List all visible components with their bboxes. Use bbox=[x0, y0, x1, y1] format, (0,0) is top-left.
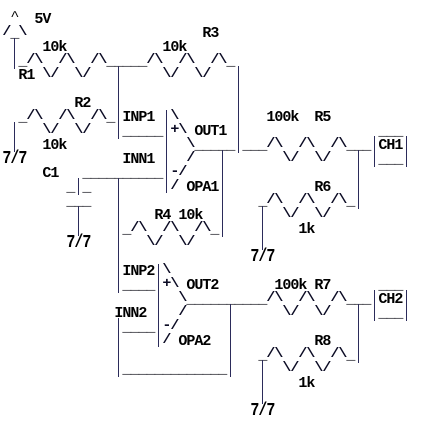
connector CH2 underline bbox=[378, 307, 402, 321]
wire node A down to INP1 bbox=[118, 66, 119, 139]
wire R7 right lead to CH2 bbox=[346, 293, 370, 307]
resistor R6 zigzag bottom bbox=[282, 208, 330, 221]
resistor R4 left lead bbox=[122, 223, 130, 237]
wire INP2 to op-amp + input bbox=[122, 279, 154, 293]
wire OUT1 down to R4 bbox=[222, 150, 223, 237]
power supply 5V arrow base bbox=[10, 27, 18, 41]
resistor R5 labels 100k R5 bbox=[266, 111, 330, 125]
op-amp U1 body row2 bbox=[170, 124, 186, 137]
op-amp U2 body row4 bbox=[178, 306, 186, 319]
op-amp U1 body row6 bbox=[170, 180, 178, 193]
op-amp U1 body row5 bbox=[170, 166, 186, 179]
connector CH1 overline bbox=[378, 125, 402, 139]
wire INN2 to op-amp - input bbox=[122, 321, 154, 335]
label OPA2 bbox=[178, 335, 210, 349]
wire CH1 node down to R6 bbox=[358, 150, 359, 209]
resistor R5 zigzag top bbox=[266, 138, 346, 151]
capacitor C1 top lead bbox=[78, 178, 79, 195]
resistor R2 zigzag top bbox=[26, 110, 106, 123]
ground (R2) bbox=[2, 151, 26, 168]
label INP2 bbox=[122, 265, 154, 279]
resistor R3 right lead bbox=[226, 55, 234, 69]
power supply 5V arrow bbox=[10, 11, 18, 23]
capacitor C1 top plate bbox=[66, 181, 90, 195]
resistor R8 left lead bbox=[258, 349, 266, 363]
resistor R4 right lead bbox=[210, 223, 218, 237]
wire OUT2 run bbox=[186, 293, 266, 307]
resistor R8 right lead bbox=[346, 349, 354, 363]
resistor R8 value 1k bbox=[298, 377, 314, 391]
resistor R4 zigzag bottom bbox=[146, 236, 194, 249]
resistor R1 zigzag top bbox=[26, 54, 106, 67]
ground (R8) bbox=[250, 403, 274, 420]
resistor R1 zigzag bottom bbox=[42, 68, 90, 81]
wire OUT1 right segment bbox=[242, 139, 266, 153]
wire R3 down to OUT1 bbox=[238, 66, 239, 153]
ground (R6) bbox=[250, 249, 274, 266]
op-amp U1 OPA1 body bbox=[170, 110, 178, 123]
connector CH1 underline bbox=[378, 153, 402, 167]
connector CH2 label bbox=[378, 293, 402, 307]
label R3 bbox=[202, 27, 218, 41]
resistor R6 left lead bbox=[258, 195, 266, 209]
wire R2 to ground bbox=[14, 122, 15, 152]
wire feedback bottom (OUT2 to INN2) bbox=[122, 363, 226, 377]
resistor R3 zigzag bottom bbox=[162, 68, 210, 81]
resistor R3 zigzag top bbox=[146, 54, 226, 67]
op-amp U2 OPA2 body bbox=[162, 264, 170, 277]
resistor R8 zigzag bottom bbox=[282, 362, 330, 375]
wire R5 right lead to CH1 bbox=[346, 139, 370, 153]
resistor R2 right lead bbox=[106, 111, 114, 125]
label R6 bbox=[314, 181, 330, 195]
power 5V lead wire bbox=[14, 38, 15, 69]
wire OUT1 run bbox=[194, 139, 234, 153]
resistor R1 left lead bbox=[18, 55, 26, 69]
wire OUT2 down to feedback bbox=[230, 304, 231, 377]
resistor R1 value 10k bbox=[42, 41, 66, 55]
ground (C1) bbox=[66, 235, 90, 252]
resistor R7 labels 100k R7 bbox=[274, 279, 330, 293]
resistor R8 zigzag top bbox=[266, 348, 346, 361]
resistor R2 zigzag bottom bbox=[42, 124, 90, 137]
resistor R4 labels R4 10k bbox=[154, 209, 202, 223]
wire R8 to ground bbox=[262, 360, 263, 404]
wire INN1 (C1 to op-amp - input) bbox=[82, 167, 162, 181]
connector CH2 overline bbox=[378, 279, 402, 293]
connector CH2 right bar bbox=[406, 290, 407, 321]
label R1 bbox=[18, 69, 34, 83]
connector CH2 left bar bbox=[374, 290, 375, 321]
op-amp U2 body row2 bbox=[162, 278, 178, 291]
resistor R2 left lead bbox=[18, 111, 26, 125]
label R8 bbox=[314, 335, 330, 349]
wire INP1 to op-amp + input bbox=[122, 125, 162, 139]
label INP1 bbox=[122, 111, 154, 125]
resistor R4 zigzag top bbox=[130, 222, 210, 235]
capacitor C1 bottom plate bbox=[66, 195, 90, 209]
op-amp U2 body row5 bbox=[162, 320, 178, 333]
label INN2 bbox=[114, 307, 146, 321]
label OUT2 bbox=[186, 279, 218, 293]
op-amp U2 body row6 bbox=[162, 334, 170, 347]
wire R6 to ground bbox=[262, 206, 263, 250]
resistor R3 value 10k bbox=[162, 41, 186, 55]
connector CH1 right bar bbox=[406, 136, 407, 167]
op-amp U1 body row3 bbox=[186, 138, 194, 151]
resistor R6 zigzag top bbox=[266, 194, 346, 207]
resistor R5 zigzag bottom bbox=[282, 152, 330, 165]
resistor R7 zigzag bottom bbox=[282, 306, 330, 319]
wire node A (R1-R2-R3-INP1 junction) bbox=[106, 55, 146, 69]
label OPA1 bbox=[186, 181, 218, 195]
wire CH2 node down to R8 bbox=[358, 304, 359, 363]
resistor R6 value 1k bbox=[298, 223, 314, 237]
op-amp U1 left edge bbox=[166, 110, 167, 193]
capacitor C1 bottom lead bbox=[78, 206, 79, 236]
wire INN1 junction down to INP2 bbox=[118, 178, 119, 293]
label R2 bbox=[74, 97, 90, 111]
label OUT1 bbox=[194, 125, 226, 139]
power supply 5V arrow diagonals bbox=[2, 26, 26, 39]
label 5V bbox=[34, 13, 50, 27]
resistor R2 value 10k bbox=[42, 139, 66, 153]
wire INN2 junction down bbox=[118, 318, 119, 377]
connector CH1 left bar bbox=[374, 136, 375, 167]
resistor R7 zigzag top bbox=[266, 292, 346, 305]
connector CH1 label bbox=[378, 139, 402, 153]
op-amp U1 body row4 bbox=[186, 152, 194, 165]
capacitor C1 label bbox=[42, 167, 58, 181]
label INN1 bbox=[122, 153, 154, 167]
op-amp U2 left edge bbox=[158, 264, 159, 347]
op-amp U2 body row3 bbox=[178, 292, 186, 305]
resistor R6 right lead bbox=[346, 195, 354, 209]
